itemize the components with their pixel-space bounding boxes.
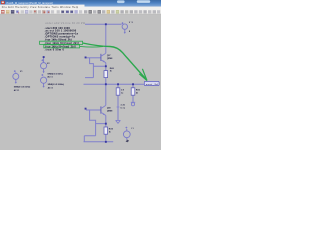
wire Q18 collector: [105, 84, 107, 105]
menu bar: [0, 5, 85, 9]
transistor Q18: [100, 106, 102, 113]
source V5: [122, 22, 128, 32]
source V1: [13, 70, 19, 82]
net label vout: [144, 81, 159, 85]
wire top horizontal: [85, 23, 122, 25]
node dot V2 top: [43, 56, 45, 58]
wire Q17 emitter node: [93, 63, 105, 71]
canvas background: [0, 0, 161, 150]
svg-text:.OPTIONS numdgt=7a: .OPTIONS numdgt=7a: [45, 35, 76, 38]
wire Q18 emitter node: [96, 115, 106, 127]
wire R49 bottom: [105, 134, 107, 142]
terminal under R50: [131, 102, 135, 105]
toolbar: [0, 9, 161, 14]
green highlight box 1: [40, 41, 83, 44]
wire bus vout: [84, 83, 145, 85]
svg-text:SINE(0 0.5 1kHz): SINE(0 0.5 1kHz): [47, 73, 63, 75]
svg-text:5.1u: 5.1u: [121, 107, 126, 109]
wire main rail: [105, 24, 107, 53]
svg-text:.tran 0 50m 0: .tran 0 50m 0: [45, 49, 65, 52]
node dots: [105, 23, 107, 25]
svg-text:SINE(0 0.5 200Hz): SINE(0 0.5 200Hz): [48, 84, 65, 86]
svg-text:QTISM: QTISM: [107, 58, 113, 60]
toolbar icons: [1, 10, 160, 14]
capacitor C8: [116, 88, 120, 95]
resistor R48: [104, 71, 108, 78]
source V2: [41, 57, 47, 72]
app icon: [1, 1, 5, 4]
ground under C8: [116, 120, 121, 123]
wire Q17 base: [86, 57, 101, 59]
resistor R49: [104, 127, 108, 134]
title bar: [0, 0, 161, 7]
resistor R50: [131, 88, 135, 95]
wire Q18 staircase: [84, 110, 95, 142]
wire r50 column: [132, 84, 134, 102]
green arrow head: [139, 69, 147, 81]
wire cap column: [117, 84, 119, 120]
capacitor tick: [117, 106, 120, 108]
svg-text:.ac oct 100 1 10000000: .ac oct 100 1 10000000: [45, 30, 77, 33]
green highlight box 2: [44, 45, 80, 48]
green arrow shaft spur: [80, 45, 103, 48]
transistor Q17: [100, 54, 102, 61]
wire bottom bus: [84, 141, 114, 143]
window button pill 1: [117, 0, 125, 3]
svg-text:File Edit Hierarchy View S: File Edit Hierarchy View Simulate Tools …: [2, 6, 79, 9]
green arrow shaft: [83, 43, 147, 80]
wire Q18 base: [86, 109, 101, 111]
source V3: [41, 74, 47, 86]
svg-text:QTISM: QTISM: [107, 111, 113, 113]
current source I1: [123, 127, 130, 140]
svg-text:.OPTIONS parameters=1n: .OPTIONS parameters=1n: [45, 33, 79, 36]
wire R48 bottom: [105, 78, 107, 85]
svg-text:.start 800 100 1000: .start 800 100 1000: [45, 27, 71, 30]
svg-text:SINE(0 0.05 1kHz): SINE(0 0.05 1kHz): [14, 86, 31, 88]
window button pill 2: [137, 0, 150, 3]
wire Q17 staircase: [85, 58, 93, 78]
